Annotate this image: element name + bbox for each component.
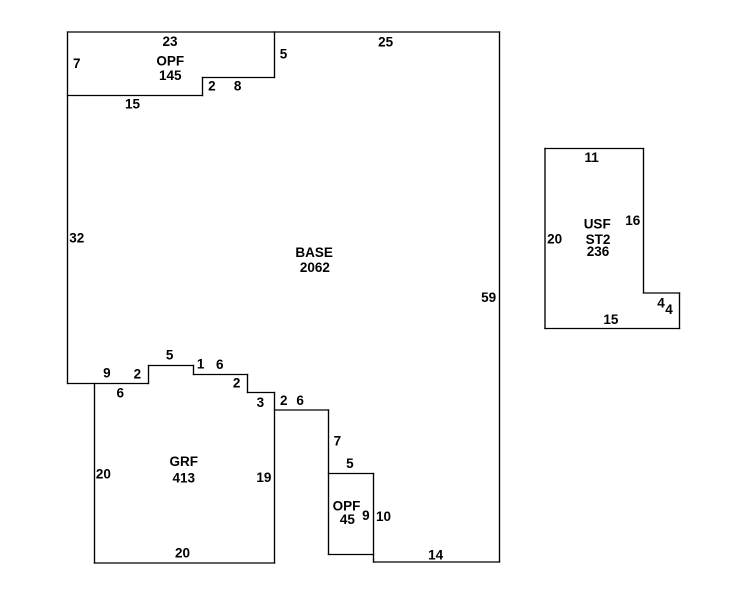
wall USF step 4 vertical bbox=[679, 293, 681, 329]
svg-text:OPF: OPF bbox=[156, 53, 184, 68]
svg-text:20: 20 bbox=[547, 231, 562, 246]
svg-text:6: 6 bbox=[117, 385, 125, 400]
wall OPF45 left edge (7 + porch) bbox=[328, 410, 330, 555]
svg-text:7: 7 bbox=[73, 56, 81, 71]
svg-text:2062: 2062 bbox=[300, 260, 330, 275]
svg-text:15: 15 bbox=[603, 312, 619, 327]
wall USF top 11 bbox=[545, 148, 644, 150]
svg-text:145: 145 bbox=[159, 68, 182, 83]
wall step run 6 lower bbox=[275, 409, 329, 411]
svg-text:5: 5 bbox=[166, 347, 174, 362]
wall step riser 2 up bbox=[148, 366, 150, 384]
svg-text:23: 23 bbox=[162, 34, 178, 49]
svg-text:1: 1 bbox=[197, 357, 205, 372]
svg-text:4: 4 bbox=[657, 296, 665, 311]
wall BASE bottom-left 9 bbox=[68, 383, 149, 385]
svg-text:7: 7 bbox=[334, 434, 342, 449]
svg-text:25: 25 bbox=[378, 34, 394, 49]
svg-text:9: 9 bbox=[362, 508, 370, 523]
svg-text:5: 5 bbox=[280, 46, 288, 61]
svg-text:15: 15 bbox=[125, 97, 141, 112]
svg-text:11: 11 bbox=[585, 150, 600, 165]
wall OPF45/BASE right edge (9/10) bbox=[373, 474, 375, 563]
svg-text:2: 2 bbox=[134, 366, 142, 381]
wall step top 5 bbox=[149, 365, 194, 367]
wall top edge (OPF+BASE top) bbox=[68, 31, 500, 33]
svg-text:45: 45 bbox=[340, 512, 356, 527]
svg-text:6: 6 bbox=[296, 393, 304, 408]
wall OPF45 bottom bbox=[329, 554, 374, 556]
wall GRF right edge (2 + 19) bbox=[274, 393, 276, 564]
svg-text:10: 10 bbox=[376, 509, 391, 524]
svg-text:USF: USF bbox=[584, 217, 611, 232]
wall step riser 1 down bbox=[193, 366, 195, 375]
wall GRF left edge 20 bbox=[94, 384, 96, 564]
wall OPF step riser 2 bbox=[202, 78, 204, 96]
svg-text:14: 14 bbox=[428, 547, 444, 562]
wall OPF right edge 5 bbox=[274, 32, 276, 78]
svg-text:32: 32 bbox=[69, 231, 84, 246]
svg-text:2: 2 bbox=[233, 376, 241, 391]
svg-text:4: 4 bbox=[665, 302, 673, 317]
wall OPF bottom 15 bbox=[68, 95, 203, 97]
svg-text:59: 59 bbox=[481, 290, 496, 305]
svg-text:BASE: BASE bbox=[295, 245, 333, 260]
wall OPF45 top 5 bbox=[329, 473, 374, 475]
svg-text:19: 19 bbox=[256, 470, 271, 485]
svg-text:16: 16 bbox=[625, 213, 641, 228]
svg-text:20: 20 bbox=[96, 467, 111, 482]
wall GRF bottom 20 bbox=[95, 562, 275, 564]
wall USF right edge 16 bbox=[643, 149, 645, 294]
wall USF step 4 horizontal bbox=[644, 292, 680, 294]
svg-text:3: 3 bbox=[257, 395, 265, 410]
wall USF bottom 15 bbox=[545, 328, 680, 330]
wall step run 3 bbox=[248, 392, 275, 394]
svg-text:2: 2 bbox=[280, 393, 288, 408]
wall OPF step bottom 8 bbox=[203, 77, 275, 79]
svg-text:20: 20 bbox=[175, 545, 190, 560]
wall BASE bottom 14 bbox=[374, 561, 500, 563]
wall left edge (7 + 32) bbox=[67, 32, 69, 384]
svg-text:5: 5 bbox=[346, 456, 354, 471]
svg-text:236: 236 bbox=[587, 244, 610, 259]
wall step run 6 bbox=[194, 374, 248, 376]
wall BASE right edge 59 bbox=[499, 32, 501, 562]
svg-text:2: 2 bbox=[208, 79, 216, 94]
wall step riser 2 down bbox=[247, 375, 249, 393]
svg-text:6: 6 bbox=[216, 357, 224, 372]
svg-text:8: 8 bbox=[234, 79, 242, 94]
svg-text:GRF: GRF bbox=[170, 454, 199, 469]
svg-text:413: 413 bbox=[173, 471, 196, 486]
wall USF left edge 20 bbox=[544, 149, 546, 329]
svg-text:9: 9 bbox=[103, 366, 111, 381]
